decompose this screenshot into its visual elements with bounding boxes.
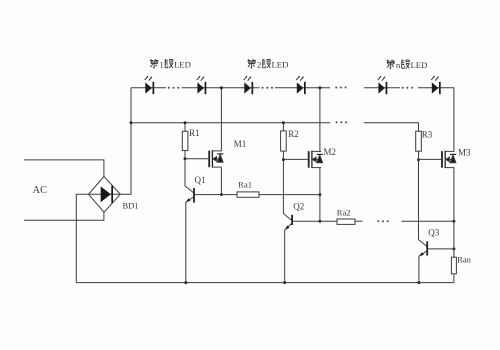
- transistor Q2 base wire: [293, 220, 320, 222]
- resistor R2 stub top: [282, 123, 284, 131]
- segment 1 label: [150, 59, 191, 69]
- wire R2 node down to Q2 collector: [282, 160, 284, 214]
- resistor Ran stub bottom to ground rail: [453, 274, 455, 283]
- wire R1 node down to Q1 collector: [184, 159, 186, 186]
- BD1 internal diode cathode bar: [111, 186, 113, 203]
- svg-text:BD1: BD1: [123, 201, 139, 211]
- transistor Q2 emitter arrowhead: [285, 225, 289, 229]
- segment 2 label: [248, 59, 289, 69]
- LED top rail segment 1b: [182, 87, 260, 89]
- LED D5: [378, 76, 388, 94]
- junction node R2 bottom / M2 gate: [282, 158, 285, 161]
- ellipsis dots LED rail break: [335, 87, 346, 89]
- LED top rail segment 2b: [275, 87, 330, 89]
- transistor Q2 base bar: [291, 215, 293, 225]
- resistor R1: [182, 131, 188, 150]
- resistor Ra2: [337, 219, 355, 224]
- junction node Q3 emitter on ground rail: [417, 281, 420, 284]
- resistor R2 stub bottom: [282, 151, 284, 160]
- svg-text:R2: R2: [288, 129, 299, 139]
- segment n label: [387, 60, 428, 70]
- LED D4: [296, 76, 306, 94]
- resistor Ra1 wire left: [221, 194, 237, 196]
- svg-text:LED: LED: [411, 60, 428, 70]
- transistor Q1 collector diagonal: [185, 186, 194, 193]
- junction node R1 bottom / M1 gate: [184, 157, 187, 160]
- BD1 internal diode triangle: [101, 186, 111, 202]
- LED D3: [244, 76, 254, 94]
- wire M2 source vertical: [319, 168, 321, 222]
- MOSFET M3: [442, 151, 456, 169]
- resistor Ran: [451, 257, 456, 274]
- resistor Ra1 wire right to M2 source line: [259, 194, 320, 196]
- svg-text:1: 1: [160, 59, 164, 69]
- AC source top terminal wire: [24, 160, 104, 177]
- resistor Ra2 wire left: [320, 220, 337, 222]
- wire Ra2 chain to M3 source line: [402, 220, 454, 222]
- MOSFET M2: [309, 151, 323, 169]
- svg-text:M2: M2: [324, 147, 337, 157]
- resistor Ra1: [237, 192, 259, 197]
- resistor R1 stub bottom: [184, 151, 186, 159]
- resistor R3 stub bottom: [418, 151, 420, 160]
- svg-text:Q2: Q2: [293, 202, 304, 212]
- wire M1 drain vertical: [220, 88, 222, 151]
- transistor Q1 emitter diagonal: [186, 197, 194, 203]
- bridge rectifier BD1 diamond: [89, 176, 121, 212]
- transistor Q1 base wire: [195, 194, 222, 196]
- transistor Q2 emitter diagonal: [285, 223, 292, 230]
- gate supply rail segment 1: [131, 122, 330, 124]
- junction node Q2 emitter on ground rail: [283, 281, 286, 284]
- svg-text:M3: M3: [458, 148, 471, 158]
- junction node Q3 base on M3 source line: [452, 247, 455, 250]
- junction node R2 top: [282, 121, 285, 124]
- wire R3 node down to Q3 collector: [418, 160, 420, 240]
- svg-text:M1: M1: [234, 139, 247, 149]
- svg-text:R1: R1: [189, 128, 200, 138]
- ellipsis dots gate rail break: [336, 121, 347, 123]
- LED top rail segment n-a: [364, 87, 400, 89]
- transistor Q3 emitter arrowhead: [419, 252, 424, 256]
- MOSFET M1: [209, 150, 223, 168]
- svg-text:Q1: Q1: [195, 175, 206, 185]
- ellipsis dots segment1 LEDs: [168, 87, 179, 89]
- wire M1 gate: [185, 158, 208, 160]
- svg-text:AC: AC: [33, 185, 48, 196]
- junction node Q2 base / Ra2 left on M2 source line: [318, 220, 321, 223]
- junction node M2 drain on LED rail: [318, 86, 321, 89]
- ellipsis dots Ra2 chain: [377, 220, 388, 222]
- junction node Ra2 right on M3 source line: [452, 220, 455, 223]
- transistor Q3 collector diagonal: [419, 240, 428, 247]
- svg-text:LED: LED: [174, 59, 191, 69]
- LED D6: [431, 76, 441, 94]
- wire M3 source vertical: [453, 168, 455, 258]
- svg-text:n: n: [396, 60, 401, 70]
- transistor Q3 base bar: [426, 241, 428, 255]
- bottom ground rail: [76, 282, 454, 284]
- resistor R1 stub top: [184, 123, 186, 132]
- transistor Q3 emitter diagonal: [419, 251, 427, 257]
- LED top rail segment 1a: [131, 87, 166, 89]
- wire Q3 emitter down to ground rail: [418, 256, 420, 283]
- transistor Q3 base wire: [428, 248, 454, 250]
- wire M2 drain vertical: [319, 88, 321, 152]
- BD1 internal diode anode wire: [90, 193, 120, 195]
- transistor Q1 base bar: [193, 188, 195, 203]
- wire M3 gate: [419, 158, 442, 160]
- ellipsis dots segment-n LEDs: [402, 87, 413, 89]
- transistor Q1 emitter arrowhead: [186, 198, 191, 202]
- junction node M1 source / Q1 base / Ra1 left: [220, 193, 223, 196]
- junction node M1 drain on LED rail: [220, 86, 223, 89]
- svg-text:R3: R3: [422, 130, 433, 140]
- LED D2: [197, 76, 207, 94]
- LED D1: [145, 76, 155, 94]
- transistor Q2 collector diagonal: [284, 214, 293, 221]
- resistor R2: [281, 131, 287, 151]
- LED top rail segment n-b with corner down to M3 drain: [418, 88, 454, 151]
- gate supply rail segment 2 with corner into R3: [364, 123, 419, 131]
- junction node R3 bottom / M3 gate: [417, 158, 420, 161]
- wire Q1 emitter down to ground rail: [185, 202, 187, 283]
- junction node Ra1 right on M2 source line: [318, 193, 321, 196]
- junction node rail start: [130, 121, 133, 124]
- svg-text:Ran: Ran: [457, 254, 471, 264]
- resistor R3: [416, 131, 422, 151]
- svg-text:LED: LED: [272, 59, 289, 69]
- junction node R1 top: [184, 121, 187, 124]
- svg-text:Ra2: Ra2: [337, 207, 351, 217]
- AC source bottom terminal wire: [24, 212, 104, 220]
- wire M2 gate: [283, 158, 307, 160]
- wire Q2 emitter down to ground rail: [284, 230, 286, 283]
- svg-text:Q3: Q3: [428, 228, 439, 238]
- ellipsis dots segment2 LEDs: [262, 87, 273, 89]
- resistor Ra2 wire right: [355, 220, 363, 222]
- svg-text:2: 2: [257, 59, 261, 69]
- svg-text:Ra1: Ra1: [238, 179, 252, 189]
- wire bridge positive output up to LED rail: [120, 88, 131, 195]
- wire bridge negative output to left vertical: [76, 194, 88, 282]
- wire M1 source vertical: [220, 167, 222, 195]
- junction node Q1 emitter on ground rail: [184, 281, 187, 284]
